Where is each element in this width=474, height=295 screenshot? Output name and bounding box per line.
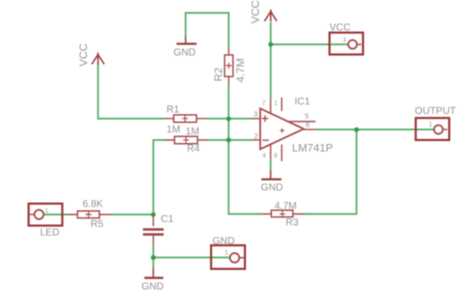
op-amp pin3 lead — [251, 118, 261, 120]
resistor R4 — [165, 126, 208, 154]
svg-text:6: 6 — [306, 120, 310, 129]
svg-text:3: 3 — [254, 110, 258, 119]
wire C1 bottom to GND node — [152, 245, 154, 257]
wire vertical bus x=228.5 down to R3 row — [229, 86, 262, 215]
svg-text:2: 2 — [254, 132, 258, 141]
op-amp pin1 stub — [281, 98, 283, 112]
op-amp pin2 lead — [251, 139, 261, 141]
junction node C1 bottom — [151, 255, 156, 260]
wire GND node to GND connector — [153, 257, 230, 259]
op-amp plus input marker — [262, 115, 268, 121]
svg-text:VCC: VCC — [250, 0, 262, 23]
wire pin4 to GND2 — [270, 159, 272, 170]
ground symbol GND3 bottom — [142, 268, 164, 293]
power symbol VCC right arrow — [265, 10, 277, 22]
connector GND — [211, 236, 245, 269]
svg-text:1: 1 — [225, 250, 229, 257]
svg-text:VCC: VCC — [330, 23, 351, 34]
wire node to op-amp pin2 — [229, 139, 251, 141]
wire GND1 up over to R2 top — [186, 13, 229, 48]
power symbol VCC left arrow — [92, 53, 104, 65]
wire VCC1 down and to R1 — [98, 64, 164, 119]
svg-text:1: 1 — [45, 207, 49, 214]
wire R4 right to node — [208, 139, 229, 141]
junction node R1/R2 — [226, 116, 231, 121]
resistor R2 (vertical) — [213, 48, 247, 86]
svg-text:R3: R3 — [286, 218, 299, 229]
wire R3 right up to output node — [305, 130, 357, 214]
junction node VCC2 — [268, 42, 273, 47]
svg-text:R1: R1 — [167, 105, 180, 116]
wire R1 right to node — [207, 118, 229, 120]
op-amp pin7 stub — [270, 98, 272, 114]
wire VCC2 down to pin7 — [270, 22, 272, 98]
ground symbol GND2 below op-amp — [261, 170, 283, 193]
wire R4 left down to C1 node — [153, 140, 165, 215]
op-amp pin5 line — [288, 121, 316, 123]
op-amp pin4 stub — [270, 144, 272, 159]
svg-text:IC1: IC1 — [295, 96, 311, 107]
svg-text:1: 1 — [343, 36, 347, 43]
op-amp minus input marker — [262, 139, 268, 141]
svg-text:6.8K: 6.8K — [83, 199, 104, 210]
junction node R4/pin2 — [226, 138, 231, 143]
svg-text:R2: R2 — [213, 67, 225, 81]
wire R5 to C1 node — [111, 214, 153, 216]
connector VCC — [330, 23, 364, 55]
resistor R3 — [262, 201, 305, 229]
junction node output — [354, 127, 359, 132]
wire LED to R5 — [44, 214, 68, 216]
svg-text:1M: 1M — [167, 125, 181, 136]
svg-text:GND: GND — [174, 48, 196, 59]
svg-text:GND: GND — [142, 282, 164, 293]
svg-text:R4: R4 — [187, 143, 200, 154]
svg-text:GND: GND — [261, 182, 283, 193]
svg-text:4.7M: 4.7M — [275, 201, 297, 212]
op-amp pin6 output lead — [304, 129, 316, 131]
capacitor C1 — [143, 214, 174, 246]
wire GND node down to GND3 symbol — [152, 258, 154, 268]
svg-text:LED: LED — [40, 228, 59, 239]
svg-text:4.7M: 4.7M — [235, 58, 247, 82]
svg-text:GND: GND — [213, 236, 235, 247]
wire node to op-amp pin3 — [229, 118, 251, 120]
op-amp IC1 triangle — [260, 109, 304, 150]
junction node C1 top — [151, 212, 156, 217]
resistor R5 — [68, 199, 111, 230]
resistor R1 — [164, 105, 207, 136]
svg-text:1M: 1M — [186, 126, 200, 137]
connector LED — [29, 204, 63, 239]
svg-text:VCC: VCC — [78, 43, 90, 66]
ground symbol GND1 top — [174, 36, 197, 59]
connector OUTPUT — [415, 106, 456, 140]
svg-text:1: 1 — [429, 121, 433, 128]
svg-text:LM741P: LM741P — [292, 143, 333, 155]
svg-text:R5: R5 — [91, 219, 104, 230]
wire op-amp output to OUTPUT connector — [316, 129, 435, 131]
wire VCC2 node to VCC connector — [271, 43, 349, 45]
svg-text:OUTPUT: OUTPUT — [415, 106, 456, 117]
svg-text:C1: C1 — [161, 214, 174, 225]
op-amp small plus marker — [280, 128, 285, 133]
op-amp pin8 stub — [281, 145, 283, 162]
